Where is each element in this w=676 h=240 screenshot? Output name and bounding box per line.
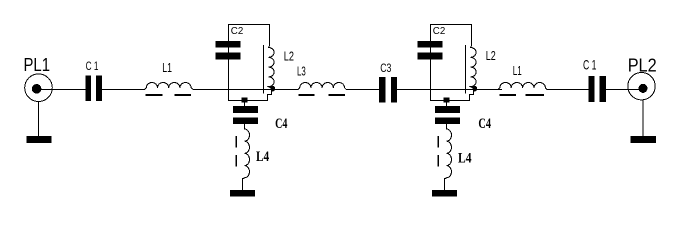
wire C4 to L4 — [244, 124, 246, 130]
capacitor C1 (left) — [85, 59, 102, 101]
inductor L2 — [269, 46, 275, 89]
wire C3 to tank2 and on to second L1 — [397, 89, 502, 91]
svg-text:L1: L1 — [162, 60, 172, 75]
svg-text:PL1: PL1 — [24, 55, 51, 75]
wire PL1 dot to C1 — [40, 89, 86, 91]
svg-text:L3: L3 — [297, 64, 306, 78]
capacitor C2 (tank2) — [418, 41, 443, 48]
wire C4 to L4 (tank2) — [446, 124, 448, 130]
wire tank2 top and left branch — [431, 25, 472, 101]
wire C1 to PL2 — [606, 89, 640, 91]
svg-text:C3: C3 — [380, 63, 391, 75]
svg-text:L4: L4 — [256, 149, 270, 165]
wire node to C4 — [244, 102, 246, 106]
wire PL1 to ground — [38, 102, 40, 137]
ground under L4 (tank2) — [432, 190, 457, 197]
svg-text:C4: C4 — [275, 116, 288, 132]
capacitor C4 — [233, 106, 258, 113]
wire L3 to C3 — [346, 89, 380, 91]
wire L4 to ground (tank2) — [444, 178, 446, 191]
wire node to C4 (tank2) — [446, 102, 448, 106]
capacitor C2 — [216, 41, 241, 48]
node square junction (tank2) — [444, 98, 450, 103]
wire L4 to ground — [242, 178, 244, 191]
inductor L2 (tank2) — [471, 46, 477, 89]
wire L2 bottom hook — [268, 90, 272, 101]
inductor L4 (tank2) — [445, 129, 452, 179]
inductor L1 (left) — [145, 60, 193, 95]
tank resonator 1 — [216, 25, 295, 197]
wire L2 bottom hook (tank2) — [470, 90, 474, 101]
svg-text:L4: L4 — [458, 151, 472, 167]
ground under L4 — [230, 190, 255, 197]
inductor L3 — [297, 64, 346, 95]
wire C1 to L1 — [102, 89, 145, 91]
wire PL2 to ground — [642, 100, 644, 137]
svg-text:C 1: C 1 — [86, 59, 99, 73]
svg-text:L1: L1 — [513, 63, 522, 78]
svg-text:C2: C2 — [433, 25, 446, 37]
svg-text:C 1: C 1 — [583, 57, 597, 73]
svg-text:C4: C4 — [478, 116, 491, 132]
capacitor C4 (tank2) — [435, 106, 460, 113]
svg-text:L2: L2 — [284, 49, 294, 63]
connector PL1 — [24, 55, 53, 101]
junction dot on main wire — [270, 86, 275, 92]
tank resonator 2 — [418, 25, 496, 197]
junction dot on main wire (tank2) — [472, 86, 477, 92]
wire tank1 bottom — [228, 100, 268, 102]
node square junction — [242, 98, 248, 103]
connector PL2 — [628, 55, 657, 100]
svg-text:PL2: PL2 — [628, 55, 657, 76]
inductor L4 — [243, 129, 250, 179]
capacitor C1 (right) — [583, 57, 606, 102]
wire L1 to C1 (right) — [549, 89, 589, 91]
inductor L1 (right) — [498, 63, 549, 95]
ground under PL1 — [27, 136, 52, 143]
wire tank2 bottom — [430, 100, 470, 102]
svg-text:L2: L2 — [486, 49, 496, 63]
svg-text:C2: C2 — [231, 25, 244, 37]
wire L1 to tank1 and on to L3 — [193, 89, 299, 91]
wire tank1 top and left branch — [229, 25, 270, 101]
ground under PL2 — [631, 136, 657, 143]
capacitor C3 — [379, 63, 397, 102]
